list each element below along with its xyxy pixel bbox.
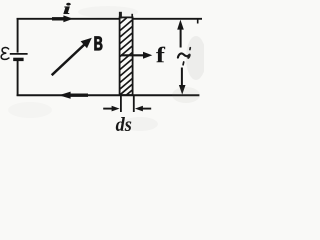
scan noise (decorative) [8,6,206,131]
label f [156,47,165,63]
rod top tick right [131,14,133,19]
wire bottom rail [17,94,200,96]
wire top rail [17,18,202,20]
label EMF script E [1,48,9,60]
ds tick right [133,96,135,112]
battery short plate [13,58,23,61]
force arrow f [121,54,146,56]
label script ell (rotated squiggle) [178,48,190,65]
current return arrow on bottom rail [70,93,88,96]
length arrow upper (points up to top rail) [180,27,182,48]
rod top stub left [119,12,122,19]
current arrow on top rail [52,17,65,20]
wire left vertical [17,18,19,53]
label ds [116,117,132,131]
paper background [0,0,204,135]
ds arrow left (points right) [103,108,113,110]
ds tick left [120,96,122,112]
conducting rod (hatched bar) [120,12,133,95]
label B [95,37,103,51]
wire left vertical lower [17,60,19,96]
wire top rail end tick [197,19,199,24]
B field arrow [52,44,86,76]
ds arrow right (points left) [141,108,151,110]
battery long plate [10,53,28,55]
length arrow lower (points down to bottom rail) [181,68,183,89]
label i [64,3,71,14]
